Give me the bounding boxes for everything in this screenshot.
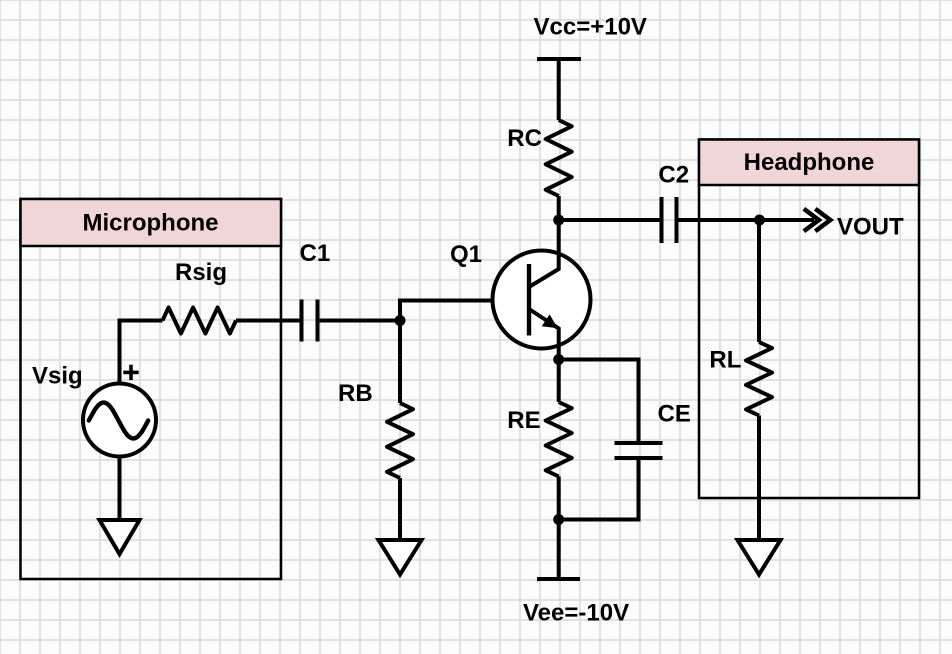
svg-text:C1: C1 [300,240,331,267]
svg-text:Vsig: Vsig [32,363,83,390]
svg-text:Vcc=+10V: Vcc=+10V [534,14,647,41]
svg-text:RC: RC [507,125,542,152]
svg-text:RB: RB [338,380,373,407]
svg-text:Vee=-10V: Vee=-10V [523,600,629,627]
svg-text:Rsig: Rsig [175,259,227,286]
svg-text:Q1: Q1 [450,241,482,268]
svg-text:C2: C2 [658,162,689,189]
svg-text:RE: RE [507,407,540,434]
svg-text:RL: RL [709,347,741,374]
svg-text:CE: CE [658,401,691,428]
svg-text:VOUT: VOUT [837,214,904,241]
svg-text:Microphone: Microphone [83,210,219,237]
svg-text:Headphone: Headphone [744,149,875,176]
